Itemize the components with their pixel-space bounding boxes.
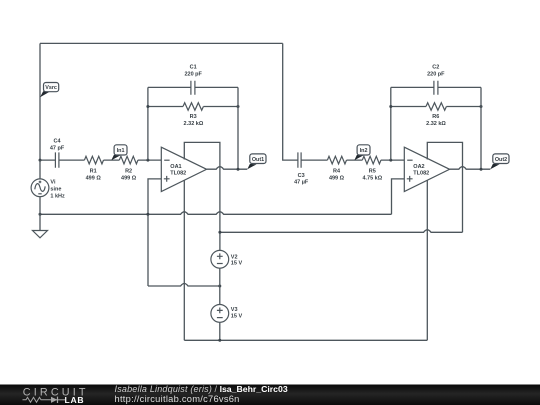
logo symbol wire-resistor-diode [23,397,66,403]
capacitor C2 [427,65,445,95]
footer bar [0,385,540,405]
capacitor C1 [184,65,202,95]
svg-text:R4: R4 [333,169,341,175]
node OA2 output/feedback [480,168,483,171]
svg-text:Vsrc: Vsrc [45,85,57,91]
svg-text:Vi: Vi [50,179,56,185]
svg-text:47 pF: 47 pF [50,146,65,152]
wire R6 branch [391,106,481,108]
svg-text:R6: R6 [432,114,439,120]
svg-text:Out1: Out1 [252,157,264,163]
wire feedback right vertical stage 2 [480,87,482,169]
wire supply branch rail with hop [220,230,463,233]
svg-text:Isabella Lindquist (eris) / Is: Isabella Lindquist (eris) / Isa_Behr_Cir… [115,384,288,394]
node R6/C2 left [389,105,392,108]
svg-text:R1: R1 [90,169,97,175]
wire stage-2 drop to C3 [283,43,298,160]
svg-text:2.32 kΩ: 2.32 kΩ [426,121,446,127]
resistor R1 [84,156,103,181]
wire main row stage 2 [301,159,404,161]
wire OA1 + input to ground rail and supply midpoint [148,179,161,286]
svg-text:15 V: 15 V [231,313,243,319]
node ground rail at OA1 + branch [146,213,149,216]
wire OA1 output row with hop [207,167,248,170]
wire ground rail with hops [40,212,392,215]
flag Vsrc [40,83,59,98]
wire OA1 V+ pin branch [184,142,220,250]
svg-text:220 pF: 220 pF [427,72,445,78]
svg-text:TL082: TL082 [170,170,186,176]
svg-text:499 Ω: 499 Ω [121,175,137,181]
wire C2 top branch [391,86,481,88]
resistor R2 [119,156,138,181]
node source top [39,159,42,162]
svg-text:C3: C3 [298,173,305,179]
svg-text:4.75 kΩ: 4.75 kΩ [362,175,382,181]
svg-text:C1: C1 [190,65,197,71]
svg-text:R3: R3 [190,114,197,120]
wire main row stage 1 [40,159,161,161]
svg-text:OA2: OA2 [413,164,424,170]
svg-text:http://circuitlab.com/c76vs6n: http://circuitlab.com/c76vs6n [115,394,240,404]
node supply branch at V2 chain [218,231,221,234]
svg-text:1 kHz: 1 kHz [50,193,65,199]
flag In2 [354,145,370,161]
svg-text:15 V: 15 V [231,261,243,267]
voltage source V2 [211,250,243,268]
wire feedback right vertical stage 1 [237,87,239,169]
wire feedback left vertical stage 2 [390,87,392,160]
resistor R3 [183,103,204,127]
node inverting input OA1 [146,159,149,162]
resistor R4 [327,156,346,181]
svg-text:Out2: Out2 [495,157,507,163]
voltage source V3 [211,305,243,323]
wire OA1 V- pin down [183,180,185,340]
wire C1 top branch [148,86,238,88]
wire feedback left vertical stage 1 [147,87,149,160]
op-amp OA2 [404,147,449,191]
node R3/C1 right [237,105,240,108]
node bottom rail at V3 [218,339,221,342]
svg-text:V3: V3 [231,307,238,313]
ground [33,231,48,238]
svg-text:499 Ω: 499 Ω [329,175,345,181]
wire V2 to V3 [219,268,221,304]
node OA1 output/feedback [237,168,240,171]
svg-text:499 Ω: 499 Ω [86,175,102,181]
voltage source Vi [31,160,65,230]
svg-text:OA1: OA1 [170,164,181,170]
wire OA2 + input to ground rail [392,179,405,214]
wire OA2 V+ pin branch [427,142,462,232]
capacitor C4 [50,138,65,167]
resistor R6 [426,103,446,127]
svg-text:C4: C4 [53,138,61,144]
wire V3 to bottom rail [219,322,221,340]
wire bottom rail [184,339,427,341]
svg-text:sine: sine [50,186,61,192]
node midrail at supply chain [218,285,221,288]
flag In1 [111,145,127,161]
svg-text:In1: In1 [117,148,125,154]
node ground rail at source [39,213,42,216]
wire R3 branch [148,106,238,108]
resistor R5 [362,156,382,181]
wire OA2 output row with hop [450,167,491,170]
node inverting input OA2 [389,159,392,162]
svg-text:R2: R2 [125,169,132,175]
svg-text:V2: V2 [231,254,238,260]
svg-text:47 µF: 47 µF [294,180,309,186]
svg-text:LAB: LAB [65,395,85,405]
node R3/C1 left [146,105,149,108]
flag Out1 [247,154,266,169]
svg-text:C2: C2 [432,65,439,71]
wire top horizontal [40,42,283,44]
svg-text:2.32 kΩ: 2.32 kΩ [184,121,204,127]
wire top-left vertical (Vsrc node riser) [39,43,41,160]
wire OA2 V- pin down [426,180,428,340]
svg-text:TL082: TL082 [413,170,429,176]
flag Out2 [490,154,509,169]
wire midrail to supply midpoint with hop [148,284,220,287]
op-amp OA1 [161,147,206,191]
node R6/C2 right [480,105,483,108]
svg-text:In2: In2 [360,148,368,154]
svg-text:R5: R5 [369,169,376,175]
capacitor C3 [294,152,309,185]
svg-text:220 pF: 220 pF [184,72,202,78]
